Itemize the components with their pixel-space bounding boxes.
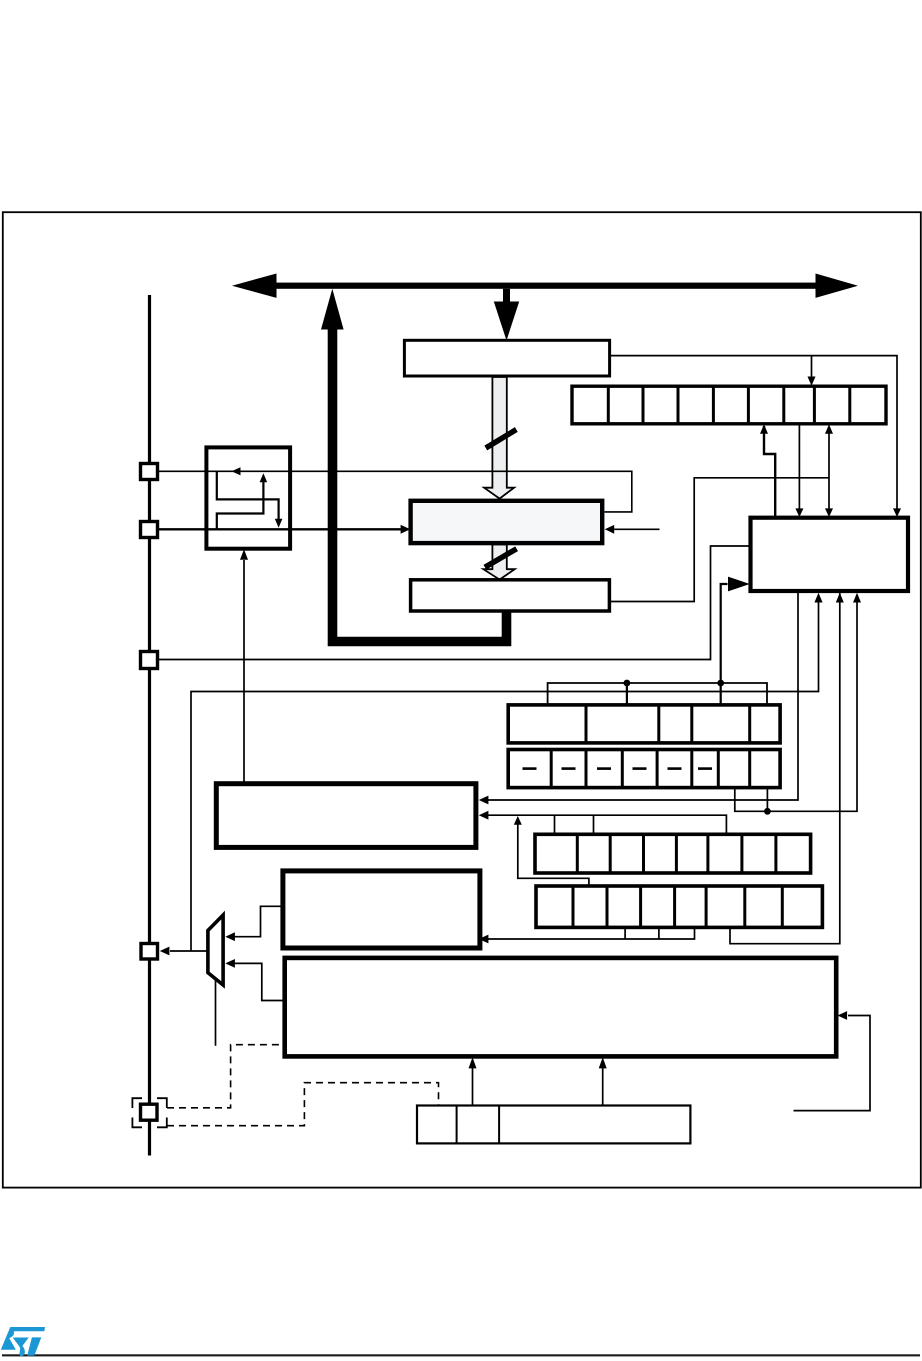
wire: mux output to SCK pin	[170, 950, 208, 952]
arrow down onto MISO line	[275, 519, 283, 528]
wire: bit drop to row3 (b)	[593, 815, 595, 833]
bit dash cell 6	[698, 767, 712, 770]
wire: control down to CR2 row	[730, 592, 840, 944]
arrow left into mux input 2	[225, 959, 235, 968]
arrow left into main control logic (lower)	[479, 811, 489, 820]
arrow left on MOSI line inside pin box	[232, 467, 241, 475]
bit dash cell 3	[597, 767, 611, 770]
pin interface box (MOSI/MISO crossover)	[206, 447, 290, 548]
wire: bit drop to row3 (a)	[554, 815, 556, 833]
NSS dashed corner (bottom-right)	[157, 1118, 167, 1128]
arrow down into communication control top (mid)	[825, 508, 833, 517]
footer rule	[2, 1354, 920, 1356]
register: Tx buffer	[411, 580, 610, 611]
junction dot	[764, 808, 771, 815]
wire: MSBit line into shift register right side	[612, 528, 660, 530]
bit-width slash on Tx path	[485, 549, 517, 568]
arrow right into shift register	[401, 525, 411, 534]
wire: control register bit bracket above CR1	[548, 683, 767, 705]
node: internal data bus	[232, 274, 858, 298]
bit dash cell 4	[633, 767, 647, 770]
register: baud rate generator	[417, 1106, 690, 1144]
bit-width slash on read path	[486, 430, 517, 449]
wire: CR1 bit drop to junction	[766, 789, 768, 812]
wire: CR1 bits to control via junction	[735, 603, 857, 812]
wire: TxE flag from Tx buffer up to status register	[609, 478, 829, 602]
NSS dashed corner (top-left)	[132, 1098, 142, 1108]
arrow up into bus (write path)	[321, 289, 344, 330]
wire: baud generator up to controller (right)	[602, 1068, 604, 1106]
wire: CR1 bit 4 up to communication control arrow	[721, 584, 728, 705]
wire: control to main control logic	[482, 592, 799, 800]
dashed wire: NSS to communication controller	[167, 1045, 284, 1108]
wire: baud generator up to controller (left)	[472, 1068, 474, 1106]
arrow left into master control block right edge	[479, 935, 489, 944]
arrow left into shift register right edge	[605, 525, 614, 534]
pin (mux output)	[141, 944, 158, 960]
arrow left into SCK pin	[160, 947, 170, 956]
arrow up into status register bottom (left)	[760, 424, 768, 433]
wire: feedback from baud generator side into controller right edge	[794, 1016, 871, 1111]
block: master control (medium box)	[283, 871, 480, 948]
register: status register (9 bit cells)	[572, 386, 886, 424]
wire: master control to clock mux input 1	[228, 906, 283, 936]
junction dot on bracket	[624, 680, 631, 687]
arrow down into communication control top (right)	[893, 508, 901, 517]
dashed wire: NSS to baud rate generator	[167, 1083, 439, 1126]
register: row 3 (bit cells)	[535, 834, 811, 873]
wire: branch down into status register	[811, 356, 813, 378]
arrow down into data register box	[494, 302, 519, 341]
wire: mux bottom stub down	[215, 979, 217, 1046]
figure frame	[3, 212, 921, 1187]
block: main control logic	[216, 784, 476, 848]
wire: pin box down to main control logic	[243, 560, 245, 783]
bit dash cell 5	[668, 767, 682, 770]
block: communication control	[751, 518, 909, 591]
arrow up onto lower line	[514, 816, 522, 825]
block: communication controller (big bottom box)	[285, 958, 837, 1057]
pin MISO	[141, 522, 158, 538]
ST logo	[1, 1327, 45, 1356]
register: data register (top box)	[404, 340, 609, 376]
wire: SCK line from pin to communication control	[158, 546, 749, 660]
register: shift register	[411, 501, 603, 543]
wire: TxE double link status/control	[828, 433, 830, 509]
wire: MISO line from pin to shift register	[158, 528, 403, 530]
wire: row4 bits down to main control wire	[482, 928, 695, 939]
arrow up into controller bottom (right)	[599, 1057, 607, 1068]
NSS dashed corner (top-right)	[157, 1098, 167, 1108]
NSS dashed corner (bottom-left)	[132, 1118, 142, 1128]
bus arrow: data register to shift register (hollow)	[484, 377, 514, 499]
wire: crossover path MISO to MOSI inside pin box	[217, 482, 264, 529]
clock mux (trapezoid)	[208, 915, 223, 985]
wire: MOSI line from pin to shift register loop	[158, 471, 632, 512]
junction dot on bracket (bit 4)	[717, 680, 724, 687]
arrow up onto MOSI line	[260, 473, 268, 482]
arrow down into status register	[808, 377, 816, 386]
wire: bracket drop to CR1 bit 2	[626, 683, 628, 705]
pin MOSI	[141, 464, 158, 480]
wire: from data register to status register area	[610, 356, 897, 509]
arrow up into status register bottom (right)	[825, 424, 833, 433]
bit dash cell 1	[523, 767, 537, 770]
arrow up into controller bottom (left)	[469, 1057, 477, 1068]
bus arrow: shift register to Tx buffer (hollow)	[483, 545, 514, 580]
register: control register 1 (row of bit cells)	[508, 705, 780, 743]
arrow left into main control logic (upper)	[479, 796, 489, 805]
arrow left into communication controller right edge	[838, 1011, 848, 1020]
arrow up into communication control bottom (right)	[853, 593, 861, 603]
arrow down into communication control top (mid-left)	[795, 508, 803, 517]
wire: thick read path from bus into data register	[503, 289, 510, 302]
wire: status to control Z-link	[764, 426, 775, 516]
wire: crossover path MOSI to MISO inside pin box	[217, 472, 279, 520]
wire: CR1 bits to main control logic (lower line)	[482, 815, 727, 833]
bit dash cell 2	[562, 767, 576, 770]
register: row 4 (bit cells)	[536, 886, 822, 927]
wire: communication controller to clock mux input 2	[228, 963, 285, 1000]
wire: long control line from SCK column down to mux output	[191, 603, 819, 951]
arrow left into mux input 1	[225, 932, 235, 941]
pin line (left edge)	[148, 295, 151, 1156]
register: control register row 2 (bit cells with dashes)	[508, 750, 780, 788]
wire: status register down to communication control	[798, 425, 800, 510]
solid arrow right into communication control left edge	[728, 577, 750, 592]
arrow up into communication control bottom (left)	[814, 593, 822, 603]
wire: row4 bit up to lower line	[518, 825, 589, 886]
arrow up into pin box bottom	[240, 549, 248, 560]
wire: thick write path from bus down to Tx buffer	[333, 327, 507, 642]
pin SCK	[141, 652, 158, 669]
pin NSS	[141, 1104, 158, 1120]
arrow up into communication control bottom (mid)	[836, 593, 844, 603]
